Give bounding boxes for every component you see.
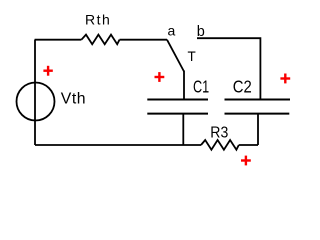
svg-text:C1: C1 [193,77,209,97]
plus sign (C1 polarity) [155,72,165,82]
svg-text:Vth: Vth [61,90,86,107]
wire R3 to C2 bottom [239,144,258,146]
capacitor C1 [147,100,208,114]
svg-text:Rth: Rth [85,12,110,28]
wire top-left horizontal segment [35,39,82,41]
wire C1 bottom stub [182,114,184,145]
wire top right segment to node a [120,39,168,41]
wire bottom rail [35,144,201,146]
plus sign (R3 polarity) [241,156,251,166]
wire node b to C2 top [197,38,260,99]
voltage source Vth [17,83,55,121]
switch T blade (diagonal) [167,40,184,72]
plus sign (Vth polarity) [43,66,52,76]
resistor Rth [81,35,119,45]
wire switch to C1 top [183,71,185,100]
capacitor C2 [225,100,291,114]
wire C2 bottom stub [257,114,259,145]
svg-text:T: T [188,49,196,64]
svg-text:R3: R3 [210,124,228,141]
plus sign (C2 polarity) [280,74,290,84]
wire left rail [34,40,36,145]
svg-text:C2: C2 [233,77,252,97]
resistor R3 [201,140,239,150]
svg-text:a: a [168,22,176,38]
